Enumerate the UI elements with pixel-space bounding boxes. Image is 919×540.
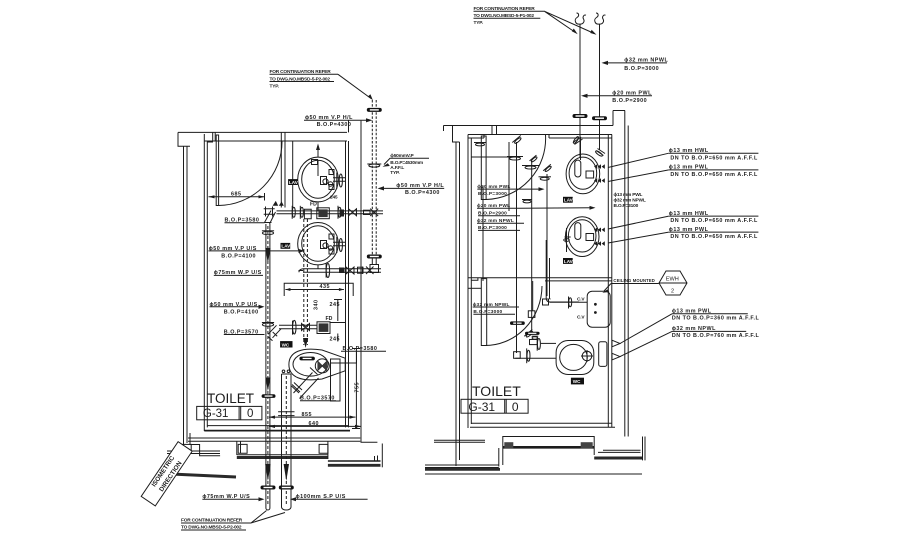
run flange 1 [292, 206, 295, 219]
trench bottom [237, 454, 328, 456]
wp down arrow 1 [265, 248, 270, 263]
pipe to cistern [541, 342, 556, 344]
wc1 flange bar [299, 357, 315, 361]
riser tee cross [370, 209, 378, 216]
pipe vline x532 [532, 281, 534, 311]
svg-text:A.F.F.L: A.F.F.L [390, 165, 404, 171]
svg-text:245: 245 [330, 302, 341, 308]
svg-text:B.O.P=4300: B.O.P=4300 [405, 190, 440, 196]
trench vertical b [502, 448, 504, 465]
continuation leaders bottom [251, 511, 285, 524]
svg-text:LAV: LAV [564, 259, 574, 264]
room top wall outer [468, 134, 612, 136]
svg-text:B.O.P=3100: B.O.P=3100 [614, 203, 639, 209]
trench corner bracket right [319, 444, 328, 453]
riser pipe 1 [579, 24, 581, 157]
lower run wall black fitting [339, 268, 345, 274]
door leaf lower [481, 279, 486, 346]
lower fitting g3 diag [524, 329, 534, 338]
rlav1 inner [569, 157, 597, 189]
lower run valve [346, 267, 354, 274]
lower ledge a [425, 464, 499, 466]
squiggle pipe2 [595, 13, 606, 24]
leader pwl360 [620, 314, 672, 344]
interior fitting f8 [522, 200, 532, 203]
lower fitting g4 [532, 336, 539, 339]
svg-text:755: 755 [355, 382, 361, 393]
partition wall outer [468, 277, 612, 279]
lower hatch band [425, 468, 500, 471]
interior fitting f2 diag [512, 135, 523, 145]
svg-text:DN TO B.O.P=650 mm A.F.F.L: DN TO B.O.P=650 mm A.F.F.L [670, 234, 758, 240]
shaft step vertical [381, 444, 383, 468]
rlav1 pipe down [580, 138, 582, 160]
wc2 box [571, 378, 584, 385]
table rect left [197, 406, 262, 419]
room right wall b [611, 135, 613, 428]
right step b [598, 451, 641, 453]
lav2 outer [298, 223, 339, 265]
svg-text:245: 245 [330, 336, 341, 342]
wc2 cistern [599, 342, 607, 367]
wp elbow to run2 [268, 325, 281, 341]
interior vline 1 [508, 142, 510, 211]
room right wall a [345, 141, 347, 427]
table rect right [461, 399, 528, 413]
door leaf upper [481, 136, 486, 200]
jamb notch [207, 142, 213, 145]
svg-text:TYP.: TYP. [474, 20, 484, 26]
wp black flange mid [262, 394, 276, 398]
wc2 bowl [556, 341, 594, 375]
run2 big flange [293, 320, 296, 334]
interior fitting f3 [507, 157, 523, 161]
riser2 flange [592, 116, 607, 120]
trench vertical a [498, 448, 500, 467]
svg-text:CEILING MOUNTED: CEILING MOUNTED [613, 278, 655, 283]
rlav1 slot [575, 160, 581, 177]
right hatch band [594, 457, 642, 460]
svg-text:WC: WC [573, 379, 581, 384]
floor edge line b [188, 440, 360, 442]
riser1 diag fitting [573, 136, 583, 145]
wc1 trap circle [315, 359, 329, 373]
room bottom wall outer [204, 430, 350, 432]
svg-text:855: 855 [302, 412, 313, 418]
step right vertical [375, 456, 378, 462]
pipe to ewh [550, 297, 587, 309]
right step verticals [594, 437, 645, 461]
rlav1 arrows row1 [594, 164, 605, 169]
sp flange 1 [278, 412, 294, 416]
svg-text:FD: FD [326, 316, 333, 322]
rlav1 tap [586, 171, 594, 178]
building left pilaster [453, 126, 460, 143]
elbow box x545 [543, 299, 549, 305]
pipe vline x516 [516, 142, 518, 353]
run flange 2 [300, 206, 303, 219]
dim 685 [209, 196, 265, 198]
room top wall inner seg1 [468, 137, 484, 139]
lower vertical lens [537, 337, 540, 350]
svg-text:ϕ32 mm NPWL: ϕ32 mm NPWL [614, 198, 646, 204]
pipe down to lower room [546, 240, 579, 302]
lav2 drain line [317, 265, 319, 269]
partition line b [284, 132, 286, 207]
wp flange mid [262, 323, 274, 327]
svg-text:B.O.P=4300: B.O.P=4300 [317, 122, 352, 128]
svg-text:B.O.P=4100: B.O.P=4100 [224, 309, 259, 315]
building left wall [183, 146, 185, 451]
room left wall inner [206, 145, 208, 428]
FD box [317, 208, 330, 219]
lower run big flange [326, 263, 329, 277]
slab top line [503, 437, 594, 449]
interior vline 3 [546, 174, 548, 296]
hl1 leader drop [348, 120, 350, 132]
interior fitting f4b diag [530, 155, 539, 163]
trench left vertical b [240, 441, 242, 453]
lav1 interior pipe [317, 160, 319, 176]
wp pipe vertical [266, 224, 270, 510]
run2 pipes [279, 325, 317, 329]
room top wall inner line [204, 140, 347, 142]
wp flange upper [262, 231, 274, 235]
lav1 pipe up with arrow [317, 147, 319, 157]
sp pipe vertical [282, 370, 292, 510]
svg-text:WC: WC [282, 342, 290, 347]
partition wall inner seg2 [545, 280, 612, 282]
svg-text:B.O.P=2900: B.O.P=2900 [612, 98, 647, 104]
svg-text:G-31: G-31 [468, 400, 495, 414]
rlav1 box [563, 197, 573, 203]
wc1 bowl outer [289, 349, 345, 380]
door arc lower [484, 286, 542, 346]
rlav2 arrows row1 [594, 228, 605, 233]
svg-text:435: 435 [320, 284, 331, 290]
walkway left a [434, 439, 485, 441]
rlav2 box [563, 258, 573, 264]
outer right wall a [624, 111, 626, 437]
svg-text:0: 0 [512, 400, 519, 414]
svg-text:TYP.: TYP. [270, 84, 280, 90]
door jamb left b [214, 132, 216, 141]
door jamb mid pair [492, 126, 497, 135]
slab pad left [504, 442, 513, 448]
svg-text:245: 245 [330, 195, 338, 201]
riser to run elbow [370, 258, 379, 273]
building top line [178, 131, 347, 133]
lav1 tap [321, 177, 333, 187]
svg-text:LAV: LAV [289, 180, 299, 185]
interior vline 2 [531, 161, 533, 332]
sp drop arrow [303, 338, 308, 348]
room left wall outer [467, 135, 469, 429]
diagonal soil pipe [292, 368, 319, 399]
lower fitting g2 [528, 311, 535, 318]
riser open flange [367, 164, 381, 167]
room bottom wall outer [470, 426, 615, 428]
riser pipe 2 [599, 24, 601, 150]
run nipple fitting [364, 210, 371, 214]
svg-text:TYP.: TYP. [390, 170, 400, 176]
svg-text:DN TO B.O.P=760 mm A.F.F.L: DN TO B.O.P=760 mm A.F.F.L [672, 333, 760, 339]
rlav2 slot [575, 223, 581, 240]
p-trap elbow [304, 209, 311, 219]
lav1 wall connection [329, 170, 346, 190]
trench left vertical a [236, 441, 238, 455]
svg-text:C.V: C.V [577, 315, 585, 321]
shaft wall line [361, 121, 377, 443]
FD2 box [317, 322, 330, 334]
wc label box [280, 341, 292, 347]
right step a [603, 449, 641, 451]
wp arrow mid2 [265, 378, 270, 392]
door strike jamb [280, 132, 282, 141]
lower run [299, 269, 381, 272]
rlav2 inner [568, 220, 596, 252]
lav1 drain line [317, 202, 319, 211]
lav2 tap [321, 241, 333, 251]
left ledge b [167, 453, 220, 455]
lower room fitting g1 black flange [510, 321, 525, 325]
door leaf [216, 135, 218, 206]
riser dashed pair [371, 100, 373, 258]
interior fitting f6 [539, 177, 552, 180]
partition below strike [280, 141, 282, 208]
door arc upper [486, 135, 546, 200]
lav2 label box [281, 243, 291, 249]
trench hatch band [237, 456, 328, 459]
svg-text:TOILET: TOILET [472, 383, 521, 399]
run2 valve [302, 324, 310, 331]
building left wall b [459, 142, 461, 460]
table divider left [239, 406, 241, 419]
partition notch [471, 278, 478, 281]
wc1 cistern [331, 359, 341, 401]
svg-text:FD: FD [310, 201, 317, 207]
left ledge a [167, 450, 220, 452]
dim 245 lower [337, 334, 339, 342]
left elbow assembly [264, 207, 276, 225]
door jamb left [212, 132, 214, 141]
svg-text:EWH: EWH [666, 277, 679, 283]
dim 755 vertical [352, 348, 360, 429]
leader npwl760 [620, 331, 672, 356]
door jamb b [548, 135, 550, 139]
svg-text:DN TO B.O.P=650 mm A.F.F.L: DN TO B.O.P=650 mm A.F.F.L [670, 218, 758, 224]
building top line [444, 125, 614, 127]
lower run box fitting [358, 267, 364, 273]
lower fitting g5 [514, 352, 521, 359]
ewh hexagon [659, 271, 687, 295]
svg-text:B.O.P=3000: B.O.P=3000 [624, 66, 659, 72]
svg-text:C.V: C.V [577, 297, 585, 303]
rlav2 tap [586, 234, 594, 241]
lower fitting g7 box [530, 340, 538, 345]
walkway left b [434, 441, 485, 443]
building left wall inner [186, 146, 188, 443]
svg-text:640: 640 [309, 421, 320, 427]
trench right vertical a [327, 441, 329, 459]
interior hline y157 [471, 156, 517, 158]
svg-text:340: 340 [314, 300, 320, 311]
riser2 elbow fitting [595, 149, 605, 157]
vertical partition pipe line [482, 186, 484, 281]
continuation leaders right [544, 11, 596, 35]
isometric direction banner [141, 442, 192, 506]
lav2 wall connection [329, 234, 346, 254]
OO valve triangles [273, 201, 284, 206]
step right mid a [328, 460, 381, 462]
wc1 bowl inner [293, 353, 328, 377]
rlav2 left pipe [564, 228, 571, 252]
svg-text:ϕ13 mm PWL: ϕ13 mm PWL [614, 192, 643, 198]
wc wall arrows [612, 340, 620, 360]
dim 245 upper vertical [330, 299, 345, 323]
dim 640 [269, 425, 361, 428]
sp flange bottom [279, 486, 294, 490]
rlav2 arrows row2 [594, 241, 605, 246]
riser black flange low [367, 255, 382, 259]
counter edge [292, 141, 294, 208]
interior fitting f4 [522, 166, 539, 170]
sp dashed drop pipe [304, 219, 308, 345]
lower ledge b [425, 467, 499, 469]
trench corner bracket left [238, 444, 247, 453]
dim 855 [269, 416, 356, 419]
room left wall outer [203, 134, 205, 431]
outer right wall b [627, 126, 629, 437]
building left edge [443, 126, 445, 132]
counter rect [284, 283, 353, 296]
ewh unit [587, 291, 610, 327]
pad left floor [178, 444, 191, 453]
squiggle pipe1 [575, 13, 586, 24]
lav1 inner [302, 160, 335, 198]
diagonal flange band [292, 383, 302, 393]
lav1 fitting [312, 160, 318, 165]
room left wall inner [470, 138, 472, 424]
floor edge line a [188, 437, 360, 439]
horizontal run upper [277, 211, 384, 214]
building left pilaster [178, 132, 190, 146]
door arc [219, 142, 282, 206]
svg-text:685: 685 [231, 192, 242, 198]
lav1 outer [298, 157, 339, 202]
rlav2 outer [565, 217, 599, 257]
ground line [425, 473, 642, 475]
svg-text:TOILET: TOILET [207, 391, 254, 406]
continuation leader to riser [338, 74, 371, 98]
interior fittings f1 [474, 143, 486, 146]
run valve [349, 209, 357, 216]
lower run riser tee [362, 267, 373, 275]
svg-text:LAV: LAV [564, 198, 574, 203]
svg-text:B.O.P=4100: B.O.P=4100 [221, 253, 256, 259]
building left wall a [455, 142, 457, 466]
run wall black fitting [340, 210, 345, 217]
step right hatch [328, 464, 381, 467]
wp down arrow 2 [265, 464, 270, 481]
svg-text:LAV: LAV [281, 244, 291, 249]
lower fitting g6 [527, 348, 530, 363]
partition wall inner [468, 287, 481, 289]
door jamb a [483, 135, 485, 139]
slab pad right [581, 442, 593, 448]
room top wall inner seg2 [549, 137, 612, 139]
lower pipe to wc [515, 357, 556, 359]
table divider right [505, 399, 507, 413]
room right wall b [348, 141, 350, 427]
svg-text:B.O.P=3000: B.O.P=3000 [478, 191, 507, 197]
wp flange bottom [261, 486, 276, 490]
slab dark bottom [503, 446, 594, 449]
left steps [190, 433, 220, 456]
top right corner tick [613, 111, 625, 126]
sp down arrow [284, 464, 289, 481]
room bottom wall inner [471, 422, 612, 424]
svg-text:G-31: G-31 [203, 408, 229, 420]
svg-text:DN TO B.O.P=650 mm A.F.F.L: DN TO B.O.P=650 mm A.F.F.L [670, 155, 758, 161]
svg-text:DN TO B.O.P=650 mm A.F.F.L: DN TO B.O.P=650 mm A.F.F.L [670, 172, 758, 178]
riser black flange top [367, 108, 382, 112]
rlav1 outer [566, 154, 600, 194]
riser1 flange [573, 114, 588, 118]
svg-text:2: 2 [671, 289, 674, 295]
svg-text:DN TO B.O.P=360 mm A.F.F.L: DN TO B.O.P=360 mm A.F.F.L [672, 316, 760, 322]
svg-text:0: 0 [247, 408, 253, 420]
rlav1 arrows row2 [594, 178, 605, 183]
left diag hatch [171, 474, 236, 477]
interior fitting f5 diag [543, 164, 553, 173]
run flange 3 [338, 206, 341, 219]
room right wall a [607, 135, 609, 428]
lav2 inner [302, 226, 335, 262]
lower black flange 2 [525, 332, 540, 335]
room bottom wall inner [207, 425, 348, 427]
lav1 label box [288, 179, 298, 185]
